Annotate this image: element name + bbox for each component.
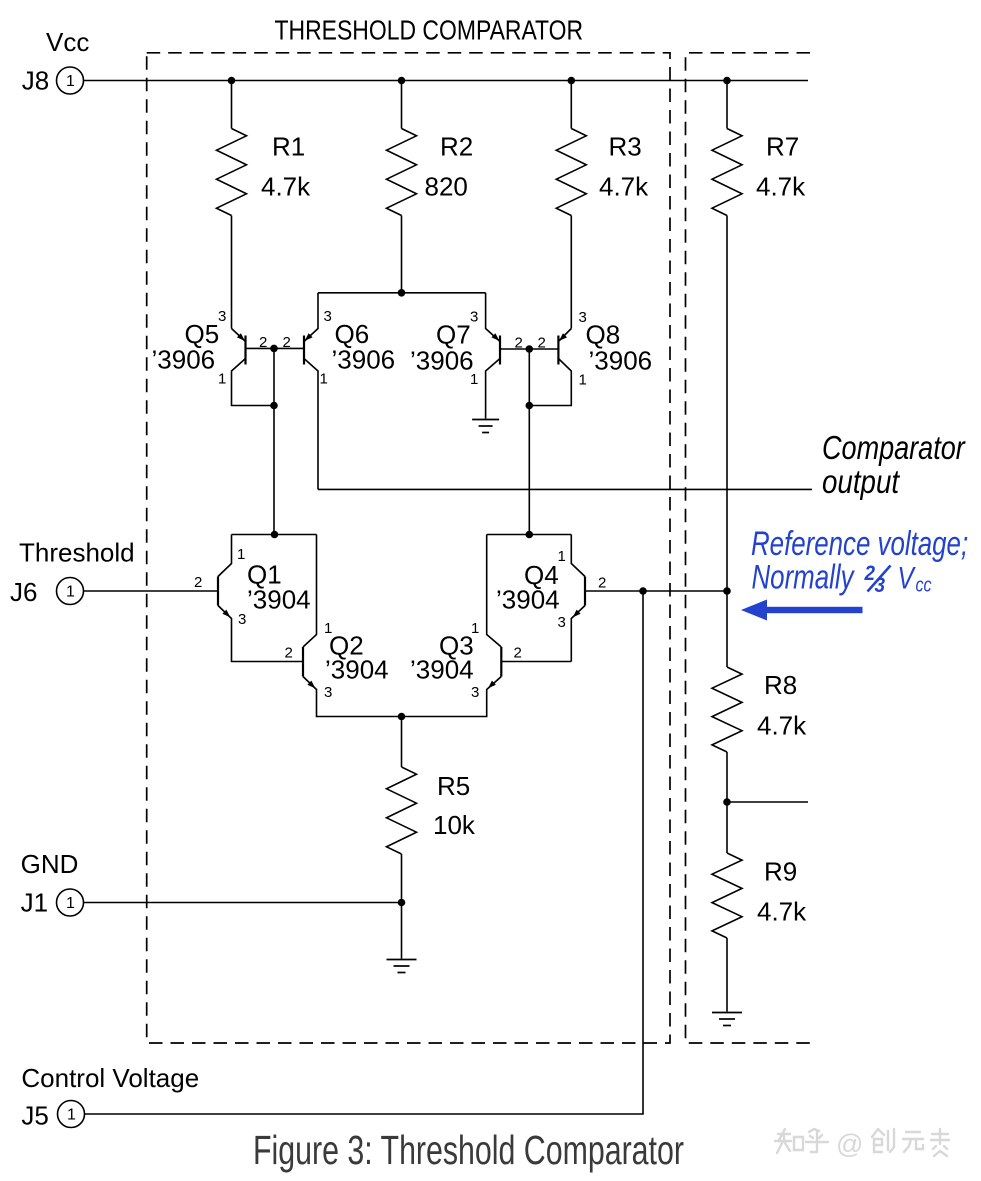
svg-text:’3904: ’3904 — [325, 655, 389, 685]
svg-text:1: 1 — [66, 584, 75, 601]
wire R9 top lead — [726, 802, 728, 853]
transistor Q4 base bar — [584, 577, 586, 606]
svg-text:10k: 10k — [433, 810, 476, 840]
wire R2 bottom lead — [401, 216, 403, 293]
junction Q4 rail — [526, 531, 534, 539]
svg-text:1: 1 — [218, 371, 226, 388]
transistor Q3 emitter (pin3) — [402, 677, 502, 717]
svg-text:R9: R9 — [764, 857, 797, 887]
transistor Q5 base bar — [244, 336, 246, 365]
transistor Q3 base lead — [501, 661, 571, 663]
transistor Q1 base bar — [217, 577, 219, 606]
ground (R9) — [712, 1012, 742, 1014]
wire R5 bottom lead — [401, 854, 403, 903]
junction R7/R8 reference node — [723, 587, 731, 595]
svg-text:3: 3 — [471, 684, 479, 701]
svg-text:3: 3 — [218, 308, 226, 325]
wire R7 bottom lead (to reference node) — [726, 216, 728, 592]
svg-text:Vcc: Vcc — [46, 27, 89, 57]
transistor Q8 collector (pin1) — [529, 359, 571, 406]
transistor Q8 base lead — [529, 348, 558, 350]
svg-text:Figure 3: Threshold Comparator: Figure 3: Threshold Comparator — [253, 1126, 684, 1173]
svg-text:J8: J8 — [22, 66, 49, 96]
transistor Q6 emitter (pin3 to R2 rail) — [304, 293, 318, 342]
transistor Q6 collector (pin1 to output) — [304, 359, 318, 490]
junction control-voltage tap — [639, 587, 647, 595]
transistor Q2 emitter (pin3) — [303, 677, 402, 717]
wire R2 top lead — [401, 81, 403, 129]
junction Q2/Q3 emitters to R5 — [398, 713, 406, 721]
junction Vcc/R7 — [723, 77, 731, 85]
transistor Q1 emitter (pin3 to Q2 base) — [218, 606, 303, 662]
wire R8 bottom lead — [726, 752, 728, 802]
svg-text:Threshold: Threshold — [19, 538, 135, 568]
junction Vcc/R2 — [398, 77, 406, 85]
svg-text:@: @ — [836, 1129, 863, 1159]
resistor R8 body — [712, 667, 742, 752]
junction GND/R5 — [398, 899, 406, 907]
svg-text:J5: J5 — [21, 1101, 48, 1131]
wire R9 bottom lead — [726, 938, 728, 1012]
resistor R7 body — [712, 129, 742, 216]
svg-text:V: V — [898, 560, 917, 596]
svg-text:’3906: ’3906 — [152, 345, 216, 375]
svg-text:THRESHOLD COMPARATOR: THRESHOLD COMPARATOR — [275, 15, 584, 46]
junction Vcc/R1 — [228, 77, 236, 85]
watermark 知乎 @创元素 — [775, 1129, 791, 1153]
transistor Q2 collector (pin1) — [303, 535, 317, 648]
svg-text:2: 2 — [514, 645, 522, 662]
wire comparator output — [318, 488, 812, 490]
ground (GND port) — [387, 959, 417, 961]
connector J8 pin 1 — [57, 67, 84, 94]
svg-text:R7: R7 — [766, 132, 799, 162]
svg-text:1: 1 — [324, 620, 332, 637]
junction R8/R9 tap — [723, 798, 731, 806]
svg-text:2: 2 — [283, 334, 291, 351]
svg-text:Comparator: Comparator — [822, 431, 967, 467]
transistor Q7 collector (pin1 to ground) — [486, 359, 500, 419]
wire R2 node to Q6/Q7 emitters — [318, 292, 486, 294]
svg-text:R3: R3 — [609, 132, 642, 162]
connector J6 pin 1 — [57, 578, 84, 605]
svg-text:R5: R5 — [437, 771, 470, 801]
svg-text:820: 820 — [425, 172, 468, 202]
transistor Q4 emitter (pin3 to Q3 base) — [571, 606, 585, 662]
svg-text:’3904: ’3904 — [410, 655, 474, 685]
wire Q5/Q6 base node down to Q1 rail — [273, 348, 275, 534]
transistor Q5 base lead — [246, 347, 275, 349]
wire R3 top lead — [570, 81, 572, 129]
junction Q7/Q8 bases — [526, 345, 534, 353]
svg-text:4.7k: 4.7k — [757, 711, 807, 741]
svg-text:J6: J6 — [10, 577, 37, 607]
svg-text:4.7k: 4.7k — [757, 897, 807, 927]
svg-text:2: 2 — [598, 575, 606, 592]
resistor R9 body — [712, 853, 742, 938]
wire GND stub down — [401, 903, 403, 959]
svg-text:3: 3 — [238, 611, 246, 628]
wire R8/R9 tap stub — [727, 801, 808, 803]
wire Q4 collector rail — [487, 534, 572, 536]
transistor Q4 base lead (reference node) — [585, 590, 727, 592]
svg-text:cc: cc — [916, 574, 932, 596]
resistor R2 body — [387, 129, 417, 216]
svg-text:Control Voltage: Control Voltage — [21, 1063, 199, 1093]
dashed box: reference divider block (open right) — [686, 53, 811, 1043]
svg-text:R8: R8 — [764, 670, 797, 700]
wire R1 top lead — [231, 81, 233, 129]
svg-text:4.7k: 4.7k — [599, 172, 649, 202]
svg-text:R2: R2 — [440, 132, 473, 162]
svg-text:’3904: ’3904 — [496, 585, 560, 615]
transistor Q6 base bar — [303, 336, 305, 365]
wire GND rail — [84, 902, 402, 904]
svg-text:3: 3 — [558, 614, 566, 631]
resistor R1 body — [217, 129, 247, 216]
svg-text:J1: J1 — [21, 888, 48, 918]
annotation arrow (reference voltage) — [741, 600, 767, 621]
junction Q8 collector tie — [526, 402, 534, 410]
svg-text:1: 1 — [67, 1107, 76, 1124]
svg-text:2: 2 — [194, 574, 202, 591]
svg-text:3: 3 — [579, 309, 587, 326]
resistor R5 body — [387, 767, 417, 854]
dashed box: threshold comparator block — [147, 53, 670, 1043]
transistor Q8 emitter (pin3 from R3) — [558, 329, 571, 342]
svg-text:4.7k: 4.7k — [756, 172, 806, 202]
transistor Q2 base bar — [302, 647, 304, 677]
transistor Q1 collector (pin1) — [218, 535, 232, 577]
svg-text:’3906: ’3906 — [589, 346, 653, 376]
wire R8 top lead — [726, 591, 728, 667]
wire Threshold to Q1 base — [84, 590, 218, 592]
svg-text:3: 3 — [324, 684, 332, 701]
svg-text:R1: R1 — [272, 132, 305, 162]
transistor Q7 base lead — [500, 348, 529, 350]
svg-text:output: output — [822, 464, 900, 501]
connector J5 pin 1 — [58, 1101, 85, 1128]
svg-text:1: 1 — [320, 371, 328, 388]
transistor Q8 base bar — [557, 336, 559, 365]
svg-text:’3906: ’3906 — [410, 346, 474, 376]
transistor Q6 base lead — [274, 347, 304, 349]
svg-text:’3906: ’3906 — [332, 345, 396, 375]
svg-text:3: 3 — [875, 574, 886, 597]
transistor Q3 base bar — [500, 647, 502, 677]
svg-text:2: 2 — [285, 645, 293, 662]
junction R2/emitter rail — [398, 289, 406, 297]
junction Q5 collector tie — [270, 402, 278, 410]
wire R5 top lead — [401, 717, 403, 768]
svg-text:2: 2 — [259, 334, 267, 351]
svg-text:1: 1 — [579, 372, 587, 389]
junction Q5/Q6 bases — [270, 345, 278, 353]
junction Q1 rail — [271, 531, 279, 539]
ground (Q7 collector) — [472, 419, 499, 421]
svg-text:Normally: Normally — [752, 558, 856, 596]
wire R7 top lead — [726, 81, 728, 129]
svg-text:1: 1 — [558, 548, 566, 565]
svg-text:1: 1 — [66, 73, 75, 90]
svg-text:4.7k: 4.7k — [261, 172, 311, 202]
transistor Q7 base bar — [499, 336, 501, 365]
transistor Q5 emitter (pin3 from R1) — [232, 329, 246, 342]
resistor R3 body — [556, 129, 586, 216]
wire R1 bottom lead (to Q5 emitter) — [231, 216, 233, 329]
connector J1 pin 1 — [57, 889, 84, 916]
svg-text:2: 2 — [538, 335, 546, 352]
svg-text:1: 1 — [470, 371, 478, 388]
wire Vcc rail — [84, 80, 808, 82]
transistor Q7 emitter (pin3 from rail) — [486, 293, 500, 342]
svg-text:1: 1 — [471, 620, 479, 637]
wire Control Voltage run — [85, 591, 643, 1114]
wire Q1 collector rail — [232, 534, 317, 536]
svg-text:’3904: ’3904 — [247, 585, 311, 615]
svg-text:2: 2 — [864, 562, 875, 585]
wire Q7/Q8 base node down to Q4 rail — [528, 349, 530, 535]
wire R3 bottom lead (to Q8 emitter) — [570, 216, 572, 329]
transistor Q4 collector (pin1) — [571, 535, 585, 577]
svg-text:1: 1 — [66, 895, 75, 912]
svg-text:2: 2 — [515, 335, 523, 352]
svg-text:GND: GND — [21, 849, 79, 879]
svg-text:1: 1 — [237, 546, 245, 563]
transistor Q3 collector (pin1) — [487, 535, 502, 648]
junction Vcc/R3 — [568, 77, 576, 85]
svg-text:3: 3 — [324, 308, 332, 325]
svg-text:3: 3 — [470, 309, 478, 326]
transistor Q5 collector (pin1) — [232, 359, 275, 406]
